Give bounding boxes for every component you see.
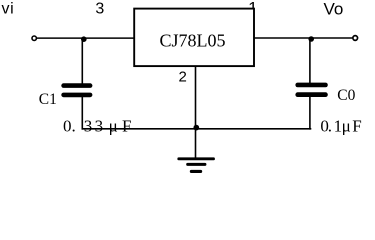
svg-text:0.33μF: 0.33μF xyxy=(63,117,131,136)
op-amp U1 regulator box CJ78L05 xyxy=(134,9,254,67)
input terminal xyxy=(32,36,36,40)
capacitor C0 xyxy=(295,83,327,88)
svg-text:C1: C1 xyxy=(39,91,57,108)
svg-text:3: 3 xyxy=(95,0,104,17)
node junction ground xyxy=(193,125,199,131)
svg-text:2: 2 xyxy=(179,68,187,85)
wire box to output terminal xyxy=(254,37,352,39)
wire junction down to C0 xyxy=(309,38,311,84)
wire bottom rail xyxy=(82,128,312,130)
node junction output xyxy=(308,36,314,42)
svg-text:CJ78L05: CJ78L05 xyxy=(159,31,225,51)
svg-text:vi: vi xyxy=(2,1,15,18)
ground xyxy=(177,157,215,160)
svg-text:0.1μF: 0.1μF xyxy=(320,117,361,136)
svg-text:C0: C0 xyxy=(337,87,355,104)
wire C0 down to rail xyxy=(309,97,311,130)
wire C1 down to rail xyxy=(81,97,83,130)
wire rail to ground xyxy=(195,129,197,158)
wire pin 2 to rail xyxy=(195,67,197,130)
node junction input xyxy=(81,36,87,42)
capacitor C1 xyxy=(61,83,92,88)
output terminal xyxy=(353,36,358,41)
svg-text:Vo: Vo xyxy=(324,0,344,18)
wire junction down to C1 xyxy=(81,38,83,84)
wire input to box xyxy=(37,37,134,39)
